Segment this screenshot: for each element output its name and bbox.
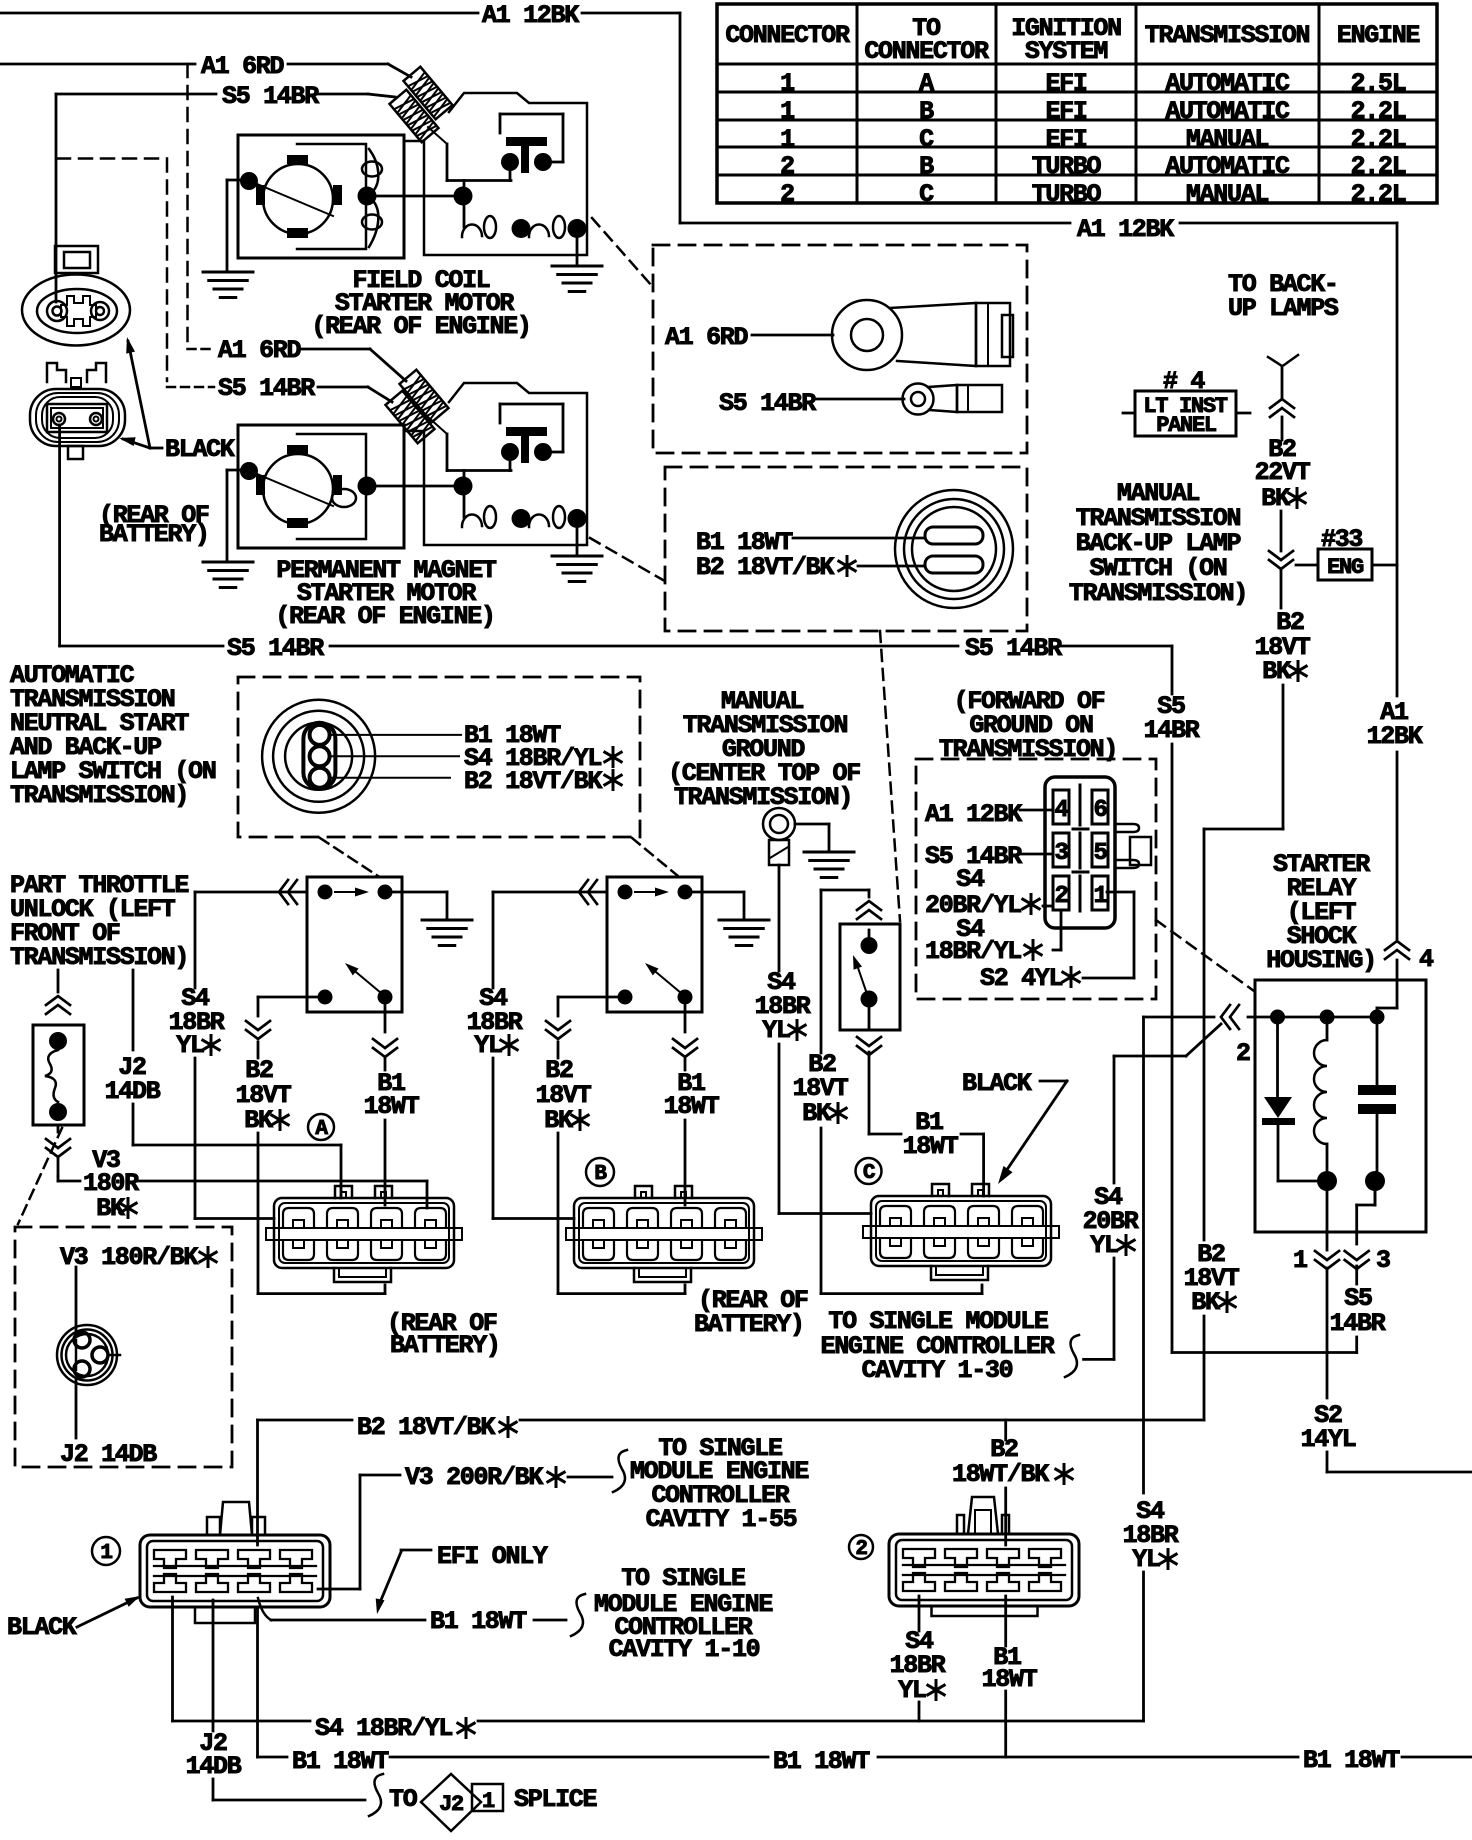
svg-text:B1 18WT: B1 18WT bbox=[773, 1747, 870, 1776]
svg-text:YL: YL bbox=[898, 1676, 926, 1705]
svg-text:B1 18WT: B1 18WT bbox=[292, 1747, 389, 1776]
svg-text:A1 6RD: A1 6RD bbox=[218, 336, 302, 365]
svg-text:AUTOMATIC: AUTOMATIC bbox=[1165, 69, 1290, 98]
svg-text:2.2L: 2.2L bbox=[1351, 125, 1406, 154]
svg-text:5: 5 bbox=[1093, 840, 1107, 867]
svg-text:3: 3 bbox=[1376, 1246, 1390, 1275]
svg-text:J2: J2 bbox=[439, 1792, 463, 1817]
svg-text:2: 2 bbox=[855, 1538, 867, 1561]
svg-text:TRANSMISSION): TRANSMISSION) bbox=[1069, 579, 1247, 608]
svg-text:(REAR OF ENGINE): (REAR OF ENGINE) bbox=[311, 312, 530, 341]
svg-text:AUTOMATIC: AUTOMATIC bbox=[1165, 97, 1290, 126]
svg-text:4: 4 bbox=[1419, 945, 1434, 974]
svg-text:SYSTEM: SYSTEM bbox=[1025, 37, 1108, 66]
svg-text:A: A bbox=[315, 1118, 328, 1141]
svg-text:2: 2 bbox=[780, 152, 794, 181]
svg-text:BK: BK bbox=[1261, 484, 1290, 513]
svg-text:BATTERY): BATTERY) bbox=[694, 1310, 804, 1339]
svg-text:1: 1 bbox=[100, 1542, 112, 1565]
svg-text:BATTERY): BATTERY) bbox=[390, 1331, 500, 1360]
svg-text:J2 14DB: J2 14DB bbox=[60, 1440, 157, 1469]
svg-text:18WT: 18WT bbox=[364, 1092, 420, 1121]
svg-text:B: B bbox=[919, 97, 934, 126]
svg-text:EFI ONLY: EFI ONLY bbox=[437, 1542, 548, 1571]
svg-text:2: 2 bbox=[1054, 883, 1067, 910]
svg-text:BK: BK bbox=[244, 1106, 273, 1135]
svg-text:CONNECTOR: CONNECTOR bbox=[725, 21, 850, 50]
svg-text:C: C bbox=[919, 125, 934, 154]
svg-text:YL: YL bbox=[1132, 1545, 1160, 1574]
svg-text:B2 18VT/BK: B2 18VT/BK bbox=[696, 553, 834, 582]
svg-text:S5 14BR: S5 14BR bbox=[222, 82, 319, 111]
svg-text:MANUAL: MANUAL bbox=[1186, 125, 1269, 154]
svg-text:YL: YL bbox=[762, 1016, 790, 1045]
svg-text:EFI: EFI bbox=[1045, 97, 1086, 126]
svg-text:4: 4 bbox=[1054, 797, 1068, 824]
svg-text:AUTOMATIC: AUTOMATIC bbox=[1165, 152, 1290, 181]
svg-text:B1 18WT: B1 18WT bbox=[430, 1607, 527, 1636]
svg-text:3: 3 bbox=[1054, 840, 1068, 867]
svg-text:YL: YL bbox=[176, 1031, 204, 1060]
svg-text:18WT: 18WT bbox=[982, 1665, 1038, 1694]
svg-text:S2 4YL: S2 4YL bbox=[980, 964, 1063, 993]
svg-text:B2 18VT/BK: B2 18VT/BK bbox=[357, 1413, 495, 1442]
svg-text:22VT: 22VT bbox=[1255, 458, 1311, 487]
svg-text:TRANSMISSION): TRANSMISSION) bbox=[10, 943, 188, 972]
svg-text:14DB: 14DB bbox=[105, 1077, 161, 1106]
svg-text:CAVITY 1-10: CAVITY 1-10 bbox=[609, 1635, 760, 1664]
svg-text:C: C bbox=[919, 180, 934, 209]
svg-text:12BK: 12BK bbox=[1367, 722, 1423, 751]
svg-text:V3 200R/BK: V3 200R/BK bbox=[405, 1463, 543, 1492]
svg-text:18WT: 18WT bbox=[903, 1132, 959, 1161]
svg-text:BK: BK bbox=[96, 1194, 125, 1223]
svg-text:TO: TO bbox=[389, 1785, 418, 1814]
svg-text:TURBO: TURBO bbox=[1032, 180, 1102, 209]
svg-text:14BR: 14BR bbox=[1330, 1309, 1386, 1338]
svg-text:2: 2 bbox=[780, 180, 794, 209]
svg-text:14BR: 14BR bbox=[1144, 716, 1200, 745]
svg-text:1: 1 bbox=[1293, 1246, 1307, 1275]
svg-text:TRANSMISSION): TRANSMISSION) bbox=[674, 783, 852, 812]
svg-text:2.2L: 2.2L bbox=[1351, 97, 1406, 126]
svg-text:ENG: ENG bbox=[1327, 555, 1364, 580]
svg-text:EFI: EFI bbox=[1045, 69, 1086, 98]
svg-text:18BR/YL: 18BR/YL bbox=[925, 937, 1021, 966]
svg-text:S5 14BR: S5 14BR bbox=[965, 634, 1062, 663]
svg-text:14YL: 14YL bbox=[1301, 1425, 1356, 1454]
svg-text:S5 14BR: S5 14BR bbox=[719, 389, 816, 418]
svg-text:1: 1 bbox=[482, 1789, 495, 1814]
svg-text:1: 1 bbox=[780, 97, 794, 126]
svg-text:S4: S4 bbox=[956, 865, 985, 894]
svg-text:ENGINE: ENGINE bbox=[1337, 21, 1420, 50]
svg-text:A1 6RD: A1 6RD bbox=[201, 52, 285, 81]
svg-text:SPLICE: SPLICE bbox=[514, 1785, 597, 1814]
svg-text:S5 14BR: S5 14BR bbox=[227, 634, 324, 663]
svg-text:B2 18VT/BK: B2 18VT/BK bbox=[464, 767, 602, 796]
svg-text:TRANSMISSION: TRANSMISSION bbox=[1145, 21, 1310, 50]
svg-text:B1 18WT: B1 18WT bbox=[1303, 1746, 1400, 1775]
svg-text:A1 12BK: A1 12BK bbox=[482, 1, 579, 30]
svg-text:B: B bbox=[919, 152, 934, 181]
svg-text:MANUAL: MANUAL bbox=[1186, 180, 1269, 209]
svg-text:TRANSMISSION): TRANSMISSION) bbox=[10, 781, 188, 810]
svg-text:V3 180R/BK: V3 180R/BK bbox=[60, 1243, 198, 1272]
svg-text:2.5L: 2.5L bbox=[1351, 69, 1406, 98]
svg-text:1: 1 bbox=[1093, 883, 1107, 910]
svg-text:B: B bbox=[594, 1163, 607, 1186]
svg-text:BLACK: BLACK bbox=[962, 1069, 1032, 1098]
svg-text:2.2L: 2.2L bbox=[1351, 152, 1406, 181]
svg-text:TO SINGLE: TO SINGLE bbox=[621, 1564, 745, 1593]
svg-text:PANEL: PANEL bbox=[1156, 413, 1217, 438]
svg-text:BK: BK bbox=[1191, 1288, 1220, 1317]
svg-text:C: C bbox=[863, 1162, 876, 1185]
svg-text:1: 1 bbox=[780, 125, 794, 154]
svg-text:TURBO: TURBO bbox=[1032, 152, 1102, 181]
svg-text:S4 18BR/YL: S4 18BR/YL bbox=[315, 1714, 452, 1743]
svg-text:1: 1 bbox=[780, 69, 794, 98]
svg-text:UP LAMPS: UP LAMPS bbox=[1228, 294, 1339, 323]
svg-text:BK: BK bbox=[544, 1106, 573, 1135]
svg-text:A1 6RD: A1 6RD bbox=[665, 323, 749, 352]
svg-text:18WT: 18WT bbox=[664, 1092, 720, 1121]
svg-text:CONNECTOR: CONNECTOR bbox=[864, 37, 989, 66]
svg-text:EFI: EFI bbox=[1045, 125, 1086, 154]
svg-text:CAVITY 1-55: CAVITY 1-55 bbox=[646, 1505, 797, 1534]
svg-text:A1 12BK: A1 12BK bbox=[925, 800, 1022, 829]
svg-text:BK: BK bbox=[1262, 657, 1291, 686]
svg-text:S5 14BR: S5 14BR bbox=[218, 374, 315, 403]
svg-text:6: 6 bbox=[1093, 797, 1107, 824]
svg-text:BATTERY): BATTERY) bbox=[99, 520, 209, 549]
svg-text:YL: YL bbox=[1090, 1231, 1118, 1260]
svg-text:A1 12BK: A1 12BK bbox=[1077, 215, 1174, 244]
svg-text:BK: BK bbox=[802, 1099, 831, 1128]
svg-text:BLACK: BLACK bbox=[7, 1613, 77, 1642]
svg-text:CAVITY 1-30: CAVITY 1-30 bbox=[862, 1356, 1013, 1385]
svg-text:BLACK: BLACK bbox=[165, 435, 235, 464]
svg-text:HOUSING): HOUSING) bbox=[1266, 946, 1376, 975]
svg-text:18WT/BK: 18WT/BK bbox=[952, 1460, 1049, 1489]
svg-text:2: 2 bbox=[1236, 1039, 1250, 1068]
svg-text:2.2L: 2.2L bbox=[1351, 180, 1406, 209]
svg-text:A: A bbox=[919, 69, 934, 98]
svg-text:(REAR OF ENGINE): (REAR OF ENGINE) bbox=[275, 602, 494, 631]
svg-text:14DB: 14DB bbox=[186, 1752, 242, 1781]
svg-text:YL: YL bbox=[474, 1031, 502, 1060]
